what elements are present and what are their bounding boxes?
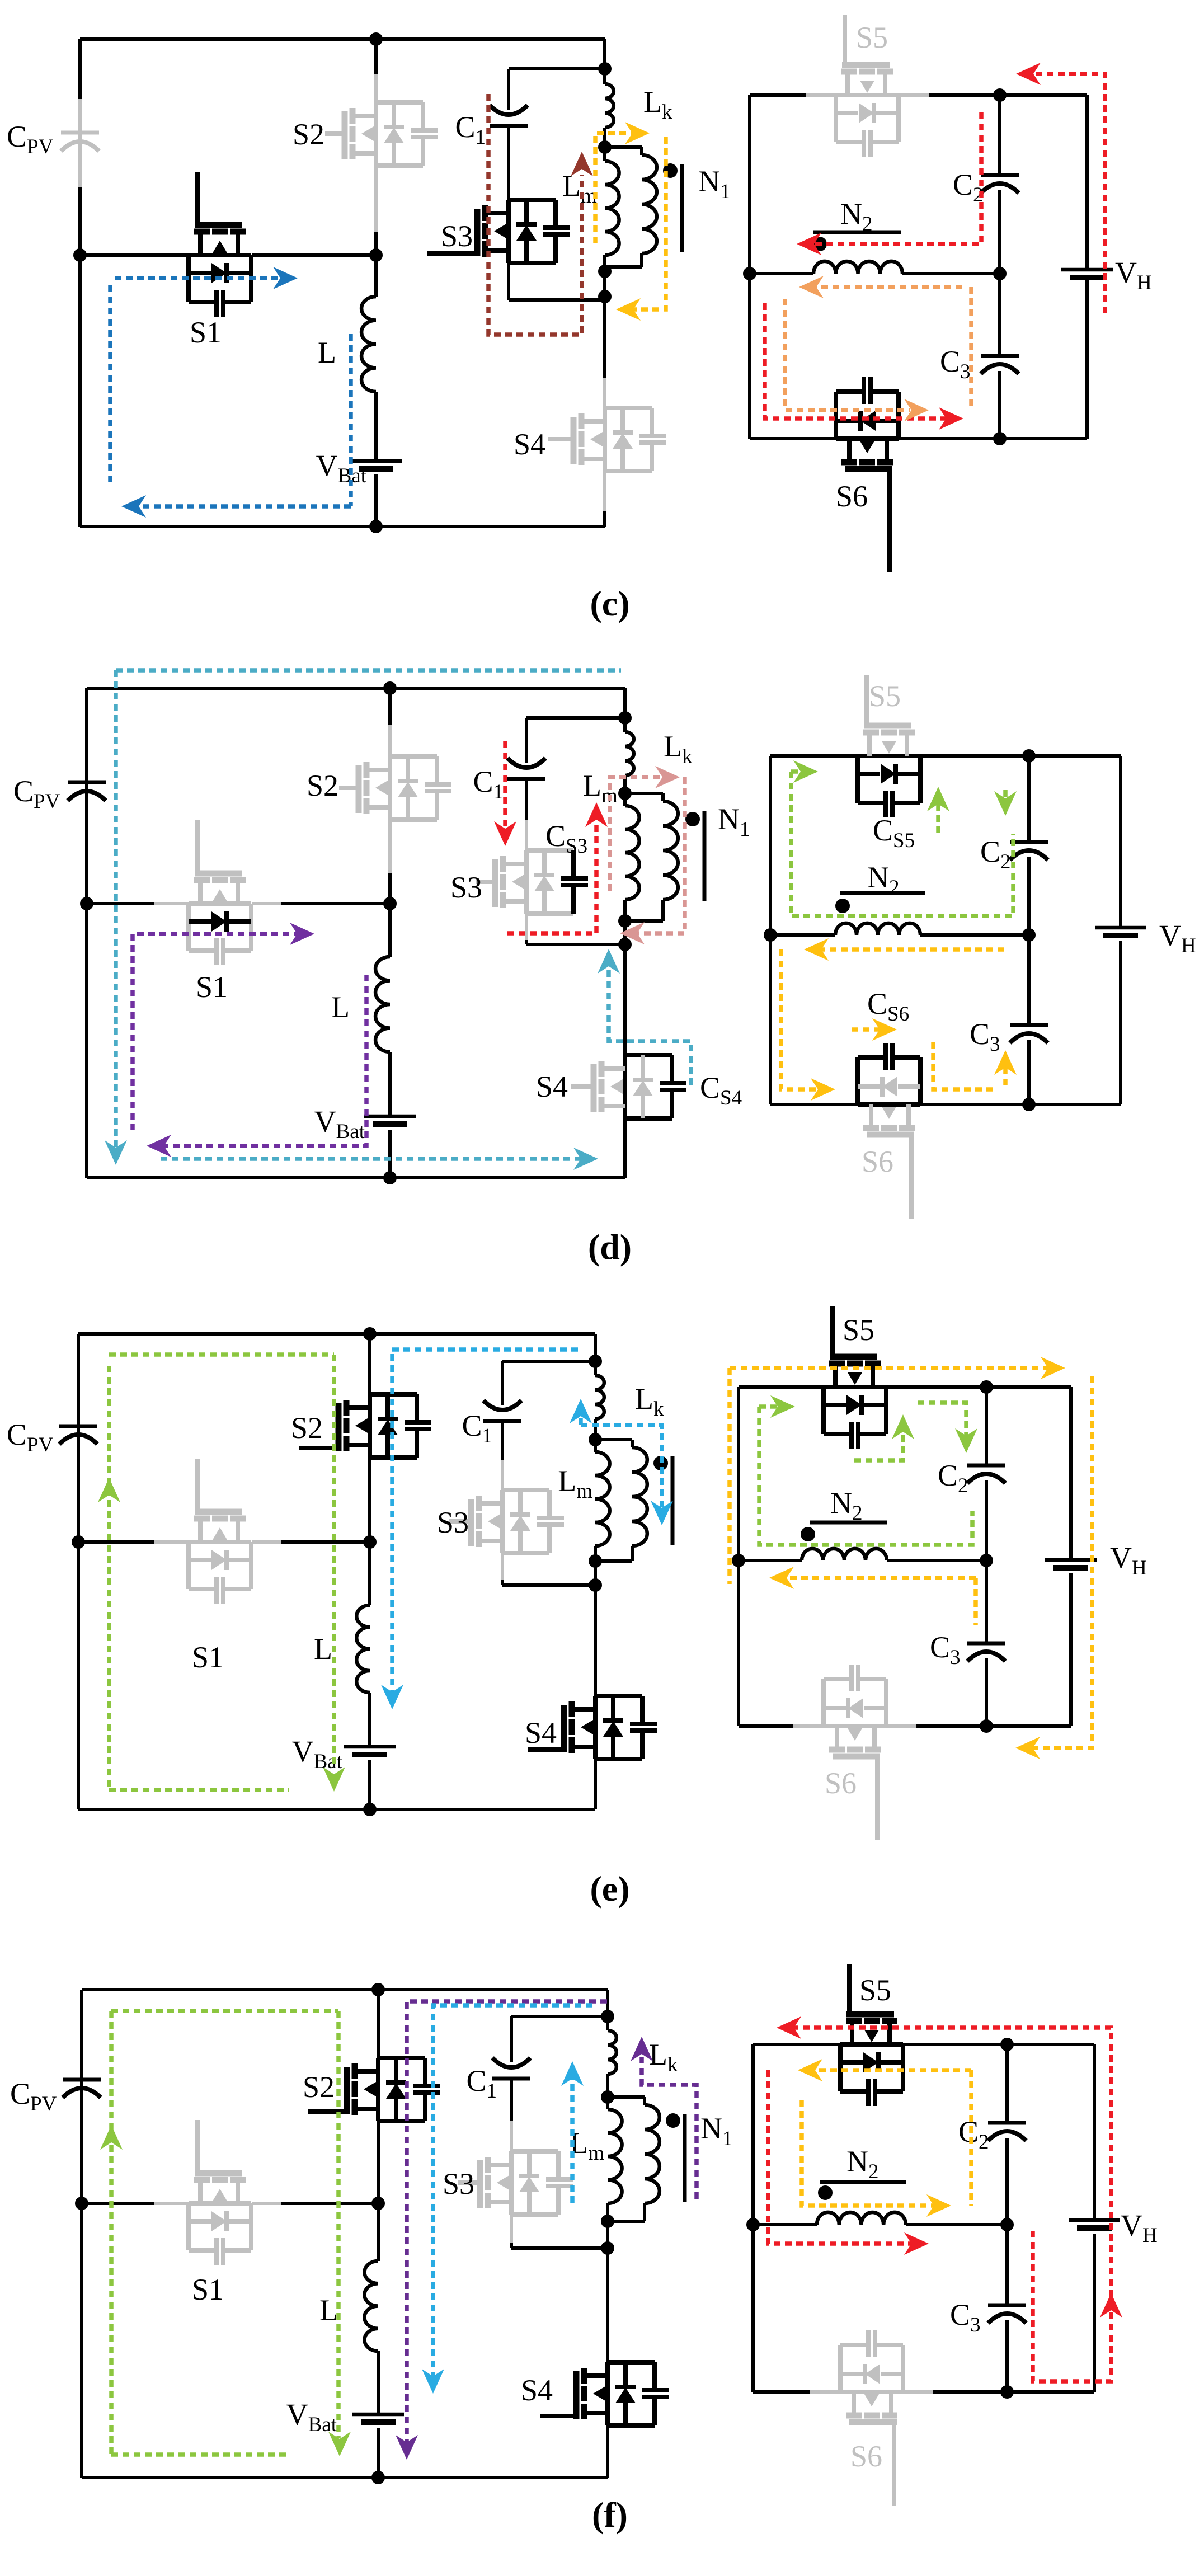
svg-text:VH: VH (1110, 1541, 1147, 1580)
label S4 (d) (536, 1070, 568, 1103)
arrowhead yellow left1 (e) (1015, 1737, 1040, 1759)
label L (d) (331, 990, 350, 1024)
svg-text:S3: S3 (450, 871, 482, 904)
node Lk-Lm (f) (601, 2090, 614, 2104)
svg-text:N1: N1 (718, 802, 750, 841)
node N2-left (d) (764, 928, 777, 942)
svg-text:N2: N2 (867, 861, 900, 899)
wire top rail (e) (78, 1334, 595, 1361)
label N2 (d) (867, 861, 900, 899)
wire C1 top (e) (502, 1361, 595, 1405)
svg-text:VH: VH (1121, 2208, 1158, 2247)
wire bottom rail right (f) (753, 2234, 1094, 2392)
transistor S6 (e) (793, 1665, 916, 1840)
label C1 (f) (466, 2064, 497, 2103)
winding N1 (d) (625, 793, 678, 921)
label C1 (d) (473, 765, 504, 803)
wire N2 mid (d) (770, 933, 1029, 937)
label N1 (d) (718, 802, 750, 841)
label S2 (c) (293, 117, 324, 151)
node N2-left (c) (743, 267, 756, 280)
transistor S1 (d) (154, 820, 281, 965)
current path lightblue Lk (e) (581, 1409, 662, 1511)
node S3-return (d) (618, 938, 632, 951)
winding N2 (e) (802, 1549, 887, 1560)
transistor S5 (f) (840, 1964, 903, 2106)
inductor L (c) (361, 255, 376, 461)
node N2-right (f) (1000, 2218, 1014, 2231)
svg-text:N2: N2 (846, 2145, 879, 2183)
svg-text:(d): (d) (588, 1227, 632, 1267)
label Lk (d) (664, 730, 693, 768)
svg-text:S4: S4 (521, 2373, 553, 2407)
arrowhead red up (f) (1100, 2293, 1122, 2318)
svg-text:(e): (e) (590, 1869, 629, 1909)
label CS4 (d) (700, 1071, 742, 1110)
transistor S1 (f) (154, 2120, 281, 2265)
label VH (e) (1110, 1541, 1147, 1580)
svg-text:Lk: Lk (649, 2038, 678, 2076)
label N2 (c) (840, 197, 873, 236)
svg-text:CPV: CPV (7, 1418, 54, 1456)
arrowhead purple right (d) (290, 923, 314, 945)
label Lm (e) (558, 1464, 592, 1503)
label CPV (c) (7, 120, 54, 158)
wire VBat-bottom (d) (388, 1130, 392, 1178)
polarity dot N2 (c) (812, 237, 827, 251)
arrowhead yellow left2 (e) (769, 1567, 794, 1589)
svg-text:S1: S1 (192, 1640, 224, 1674)
wire top rail right (c) (750, 95, 1087, 270)
capacitor C2 (c) (981, 95, 1019, 274)
node C2-top (e) (980, 1380, 993, 1394)
core bar N2 (d) (840, 891, 925, 895)
svg-text:S2: S2 (291, 1411, 323, 1445)
arrowhead yellow left (f) (798, 2059, 822, 2081)
node mid-center (d) (383, 897, 397, 910)
label VBat (e) (292, 1734, 343, 1773)
arrowhead green down2 (e) (955, 1428, 977, 1453)
wire S3 source (e) (502, 1553, 595, 1585)
svg-text:Lk: Lk (643, 85, 672, 124)
node N2-left (e) (732, 1554, 745, 1567)
node C1-top (d) (618, 711, 632, 725)
label Lm (c) (562, 169, 597, 208)
node C1-top (c) (598, 62, 612, 76)
polarity dot N1 (e) (653, 1456, 668, 1470)
node C1-top (e) (589, 1355, 602, 1368)
wire left rail (e) (77, 1334, 80, 1809)
label S4 (c) (514, 427, 545, 461)
caption (d) (588, 1227, 632, 1267)
current path maroon C1-S3 (c) (488, 94, 582, 335)
label S4 (e) (525, 1716, 557, 1750)
inductor Lk (f) (608, 2016, 617, 2097)
svg-text:Lm: Lm (570, 2126, 604, 2165)
core bar N1 (f) (683, 2114, 687, 2202)
node mid-center (e) (363, 1535, 377, 1549)
svg-text:Lm: Lm (558, 1464, 592, 1503)
svg-text:N1: N1 (700, 2112, 733, 2150)
node Lk-Lm (e) (589, 1433, 602, 1446)
svg-text:Lk: Lk (635, 1382, 664, 1421)
node S3-return (f) (601, 2241, 614, 2255)
polarity dot N1 (c) (663, 163, 678, 178)
node mid-center (c) (369, 248, 383, 262)
wire S3 source (f) (511, 2215, 608, 2248)
label S6 (e) (825, 1766, 857, 1800)
svg-text:VBat: VBat (286, 2398, 337, 2436)
arrowhead lightblue up (f) (561, 2061, 584, 2086)
polarity dot N1 (d) (685, 812, 700, 826)
wire mid rail (e) (78, 1540, 370, 1544)
label VBat (c) (316, 449, 367, 487)
label CPV (d) (13, 774, 60, 813)
label Lk (c) (643, 85, 672, 124)
wire VBat-bottom (c) (374, 474, 378, 527)
wire top rail (c) (80, 39, 605, 69)
wire top rail (d) (87, 688, 625, 718)
label VBat (d) (314, 1104, 365, 1143)
transistor S4 (f) (540, 2362, 669, 2425)
polarity dot N1 (f) (666, 2113, 680, 2128)
node Lm-bottom (e) (589, 1554, 602, 1568)
wire left rail (d) (85, 688, 88, 1178)
current path blue S1-L-VBat (c) (110, 278, 351, 506)
winding N1 (f) (608, 2097, 660, 2221)
arrowhead maroon up (c) (571, 152, 593, 176)
wire left rail (c) (78, 39, 82, 527)
label S1 (e) (192, 1640, 224, 1674)
wire VBat-bottom (e) (368, 1760, 371, 1809)
label S3 (e) (437, 1506, 469, 1539)
transistor S3 (e) (449, 1490, 564, 1553)
svg-text:S5: S5 (859, 1973, 891, 2007)
capacitor C2 (e) (967, 1387, 1005, 1560)
winding N1 (e) (595, 1440, 647, 1561)
battery VH (f) (1069, 2220, 1120, 2228)
current path lightblue Lm (f) (570, 2071, 575, 2203)
current path red Lm (d) (507, 824, 596, 933)
svg-text:C1: C1 (455, 110, 486, 149)
transistor S3 (c) (427, 200, 570, 263)
capacitor CPV (d) (68, 782, 106, 801)
svg-text:S2: S2 (303, 2070, 335, 2104)
transistor S4 (d) (571, 1055, 686, 1118)
caption (f) (592, 2495, 628, 2535)
core bar N1 (d) (703, 811, 707, 901)
label C2 (c) (953, 168, 984, 206)
arrowhead red right-S6 (c) (939, 407, 963, 430)
node Lk-Lm (d) (618, 787, 632, 800)
wire bottom rail right (d) (770, 941, 1121, 1104)
arrowhead lightblue down1 (e) (381, 1685, 403, 1709)
svg-text:CPV: CPV (10, 2077, 57, 2116)
capacitor C3 (e) (967, 1560, 1005, 1726)
node bottom-mid (f) (371, 2471, 385, 2484)
node mid-left (d) (80, 897, 93, 910)
wire bottom rail (f) (82, 2476, 608, 2479)
label C2 (e) (938, 1459, 968, 1497)
battery VBat (e) (344, 1747, 396, 1755)
current path purple VBat (f) (407, 2001, 607, 2444)
capacitor C2 (d) (1010, 756, 1048, 935)
capacitor C3 (f) (988, 2225, 1026, 2392)
node Lk-Lm (c) (598, 140, 612, 154)
arrowhead cyan down (d) (105, 1140, 127, 1165)
current path orange N2-C3 (c) (785, 287, 971, 410)
inductor Lk (c) (605, 69, 614, 147)
current path green PV loop (f) (111, 2011, 338, 2455)
node mid-center (f) (371, 2197, 385, 2210)
label L (c) (318, 336, 336, 369)
label C3 (c) (940, 345, 971, 383)
svg-text:C1: C1 (462, 1409, 492, 1447)
current path lightblue L-C1 (e) (392, 1350, 578, 1694)
svg-text:Lk: Lk (664, 730, 693, 768)
svg-text:S3: S3 (441, 219, 473, 253)
label L (f) (319, 2293, 338, 2327)
label S1 (f) (192, 2273, 224, 2306)
transistor S6 (d) (858, 1043, 920, 1219)
battery VH (e) (1045, 1560, 1097, 1568)
node C1-top (f) (601, 2010, 614, 2023)
svg-text:VH: VH (1115, 256, 1152, 294)
arrowhead red down (d) (494, 821, 516, 846)
node N2-right (e) (980, 1554, 993, 1567)
wire S3 source (c) (509, 263, 605, 300)
label S2 (f) (303, 2070, 335, 2104)
svg-text:C3: C3 (950, 2298, 981, 2337)
arrowhead orange left (c) (799, 276, 824, 298)
winding N1 (c) (605, 147, 657, 267)
battery VBat (f) (352, 2414, 404, 2422)
svg-text:CPV: CPV (13, 774, 60, 813)
wire S2 source (c) (374, 166, 378, 255)
capacitor CPV (c) (61, 133, 99, 151)
node C3-bottom (f) (1000, 2385, 1014, 2399)
arrowhead green down (e) (323, 1767, 345, 1792)
label C1 (c) (455, 110, 486, 149)
current path purple S1-VBat (d) (133, 934, 366, 1146)
wire S2 drain (f) (377, 1990, 380, 2058)
wire top rail right (f) (753, 2044, 1094, 2220)
arrowhead yellow right1 (d) (811, 1078, 835, 1101)
inductor Lm (c) (605, 147, 619, 271)
node top-mid (e) (363, 1327, 377, 1341)
wire S2 source (f) (377, 2121, 380, 2203)
svg-text:S6: S6 (836, 480, 868, 513)
capacitor C1 (f) (492, 2058, 530, 2079)
wire top rail right (e) (739, 1387, 1071, 1560)
node C3-bottom (e) (980, 1719, 993, 1733)
label S1 (d) (196, 970, 228, 1004)
svg-text:S6: S6 (862, 1145, 893, 1178)
svg-text:N2: N2 (830, 1486, 863, 1525)
core bar N2 (f) (820, 2180, 906, 2184)
label VH (d) (1159, 919, 1196, 957)
wire S3 source (d) (526, 914, 625, 944)
node C2-top (c) (993, 88, 1007, 102)
current path yellow CS6 (d) (781, 949, 1005, 1089)
wire C1-S3 (e) (501, 1423, 504, 1490)
svg-text:C2: C2 (980, 835, 1011, 873)
svg-text:S4: S4 (536, 1070, 568, 1103)
label S3 (c) (441, 219, 473, 253)
transistor S5 (e) (824, 1306, 886, 1449)
svg-text:L: L (319, 2293, 338, 2327)
current path red N2 (f) (768, 2070, 920, 2244)
svg-text:S1: S1 (192, 2273, 224, 2306)
battery VH (c) (1061, 270, 1113, 278)
arrowhead cyan right (d) (573, 1148, 598, 1170)
current path red VH-top (c) (1025, 74, 1105, 313)
wire S4 drain (e) (594, 1561, 597, 1696)
capacitor C1 (d) (507, 758, 545, 779)
label VH (f) (1121, 2208, 1158, 2247)
node S3-return (c) (598, 290, 612, 303)
svg-text:VH: VH (1159, 919, 1196, 957)
inductor Lm (f) (608, 2097, 622, 2221)
wire C1 top (f) (511, 2016, 608, 2062)
wire left rail right (c) (748, 95, 751, 439)
arrowhead yellow right (f) (926, 2194, 951, 2217)
transistor S6 (c) (836, 377, 899, 572)
current path red VH loop (f) (786, 2028, 1111, 2381)
node N2-left (f) (746, 2218, 760, 2231)
current path cyan outer (d) (116, 670, 621, 1159)
transistor S3 (d) (476, 850, 588, 914)
svg-text:VBat: VBat (314, 1104, 365, 1143)
svg-text:C1: C1 (473, 765, 504, 803)
node bottom-mid (d) (383, 1171, 397, 1184)
transistor S2 (d) (339, 756, 451, 820)
label VBat (f) (286, 2398, 337, 2436)
wire C1-S3 (d) (525, 781, 528, 850)
label N2 (e) (830, 1486, 863, 1525)
wire N2 mid (f) (753, 2223, 1007, 2226)
core bar N1 (e) (671, 1456, 675, 1545)
inductor Lm (d) (625, 793, 639, 918)
arrowhead red left-N2 (c) (797, 233, 821, 255)
label C1 (e) (462, 1409, 492, 1447)
arrowhead cyan up (d) (598, 949, 620, 974)
node top-mid (c) (369, 32, 383, 46)
transistor S4 (c) (548, 408, 666, 471)
svg-text:S1: S1 (196, 970, 228, 1004)
wire S2 drain (d) (388, 688, 392, 756)
wire S4 source (f) (606, 2425, 609, 2478)
transistor S6 (f) (810, 2330, 933, 2506)
node C2-top (d) (1022, 749, 1036, 763)
caption (c) (590, 584, 629, 623)
node mid-left (c) (73, 248, 87, 262)
node S3-return (e) (589, 1578, 602, 1592)
arrowhead green down (f) (328, 2432, 351, 2456)
svg-text:(c): (c) (590, 584, 629, 623)
arrowhead red right (f) (904, 2232, 929, 2255)
svg-text:L: L (331, 990, 350, 1024)
label S1 (c) (190, 316, 222, 349)
wire left rail (f) (80, 1990, 83, 2478)
svg-text:CS4: CS4 (700, 1071, 742, 1110)
current path red C2-N2 (c) (806, 112, 981, 244)
arrowhead green up (d) (927, 787, 949, 811)
label C2 (d) (980, 835, 1011, 873)
transistor S4 (e) (528, 1696, 657, 1759)
label Lm (f) (570, 2126, 604, 2165)
label C3 (e) (930, 1630, 961, 1669)
arrowhead red up (d) (585, 802, 608, 827)
arrowhead blue left (c) (121, 495, 146, 518)
wire C1 top (c) (509, 69, 605, 110)
svg-text:S2: S2 (293, 117, 324, 151)
transistor S1 (e) (154, 1459, 281, 1604)
arrowhead yellow right (e) (1041, 1357, 1065, 1379)
inductor L (f) (364, 2203, 378, 2414)
svg-text:S4: S4 (525, 1716, 557, 1750)
core bar N2 (c) (813, 231, 901, 234)
label CS3 (d) (545, 819, 587, 858)
arrowhead orange right (c) (904, 399, 929, 421)
arrowhead yellow right2 (d) (872, 1018, 897, 1041)
wire left rail right (d) (769, 756, 772, 1104)
label Lk (e) (635, 1382, 664, 1421)
arrowhead green up2 (e) (892, 1414, 914, 1439)
label S3 (f) (443, 2167, 474, 2201)
wire S2 drain (e) (368, 1334, 371, 1394)
wire left rail right (f) (751, 2044, 755, 2392)
battery VBat (c) (350, 461, 402, 469)
inductor Lm (e) (595, 1440, 610, 1561)
wire C1-S3 (f) (510, 2080, 513, 2151)
arrowhead green up (f) (100, 2125, 123, 2150)
label S2 (d) (307, 769, 338, 802)
wire top rail (f) (82, 1990, 608, 2016)
arrowhead purple left (d) (147, 1135, 171, 1157)
label S3 (d) (450, 871, 482, 904)
node Lm-bottom (f) (601, 2215, 614, 2228)
wire N2 mid (e) (739, 1559, 986, 1562)
svg-text:S1: S1 (190, 316, 222, 349)
wire top rail right (d) (770, 756, 1121, 928)
wire C1-S3 (c) (507, 128, 510, 200)
current path cyan CS4 (d) (609, 959, 691, 1087)
wire S4 source (e) (594, 1759, 597, 1809)
node N2-right (c) (993, 267, 1007, 280)
caption (e) (590, 1869, 629, 1909)
svg-text:S5: S5 (869, 679, 901, 713)
winding N2 (d) (835, 923, 920, 935)
node C2-top (f) (1000, 2038, 1014, 2051)
label C3 (d) (970, 1017, 1000, 1056)
arrowhead pink right (d) (655, 766, 680, 788)
node C3-bottom (c) (993, 432, 1007, 445)
svg-text:Lm: Lm (583, 769, 618, 807)
node C3-bottom (d) (1022, 1098, 1036, 1111)
arrowhead lightblue down2 (e) (651, 1501, 673, 1525)
arrowhead blue right (c) (273, 267, 298, 289)
node mid-left (f) (75, 2197, 88, 2210)
arrowhead lightblue up (e) (570, 1399, 592, 1423)
wire S4 source (d) (623, 1118, 627, 1178)
wire mid rail (c) (80, 253, 376, 257)
capacitor C2 (f) (988, 2044, 1026, 2225)
label CS6 (d) (867, 987, 909, 1026)
svg-text:(f): (f) (592, 2495, 628, 2535)
arrowhead green right (d) (793, 760, 818, 783)
arrowhead yellow left (d) (804, 938, 829, 961)
